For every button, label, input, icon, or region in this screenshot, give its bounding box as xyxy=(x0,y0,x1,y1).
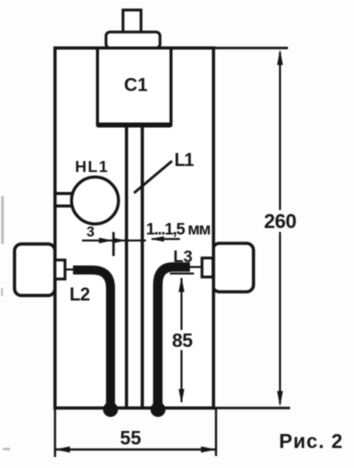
svg-text:L2: L2 xyxy=(70,285,91,305)
svg-text:3: 3 xyxy=(87,225,95,241)
svg-text:1...1,5 мм: 1...1,5 мм xyxy=(146,220,211,238)
svg-text:260: 260 xyxy=(264,211,296,233)
svg-text:C1: C1 xyxy=(124,74,148,95)
svg-text:HL1: HL1 xyxy=(75,159,109,176)
svg-text:55: 55 xyxy=(120,429,142,450)
svg-text:L1: L1 xyxy=(174,150,194,170)
svg-text:Рис. 2: Рис. 2 xyxy=(279,431,343,453)
svg-text:L3: L3 xyxy=(173,248,192,266)
svg-text:85: 85 xyxy=(172,331,193,352)
